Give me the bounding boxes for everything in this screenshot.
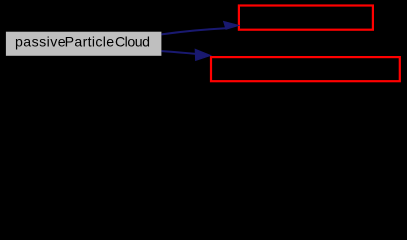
svg-text:Cloud: Cloud	[115, 34, 150, 50]
edge to bottom-right node	[162, 49, 211, 60]
wire (spline)	[162, 28, 226, 34]
edge to top-right node	[162, 21, 239, 34]
svg-text:passive: passive	[15, 34, 66, 50]
node top-right (red bordered, black fill)	[239, 6, 373, 30]
node bottom-right (red bordered, black fill)	[211, 57, 400, 81]
arrowhead	[195, 49, 210, 60]
svg-text:Particle: Particle	[65, 34, 115, 50]
node passiveParticleCloud (current node, grey fill)	[5, 31, 162, 56]
arrowhead	[224, 21, 239, 29]
wire (spline)	[162, 51, 197, 54]
